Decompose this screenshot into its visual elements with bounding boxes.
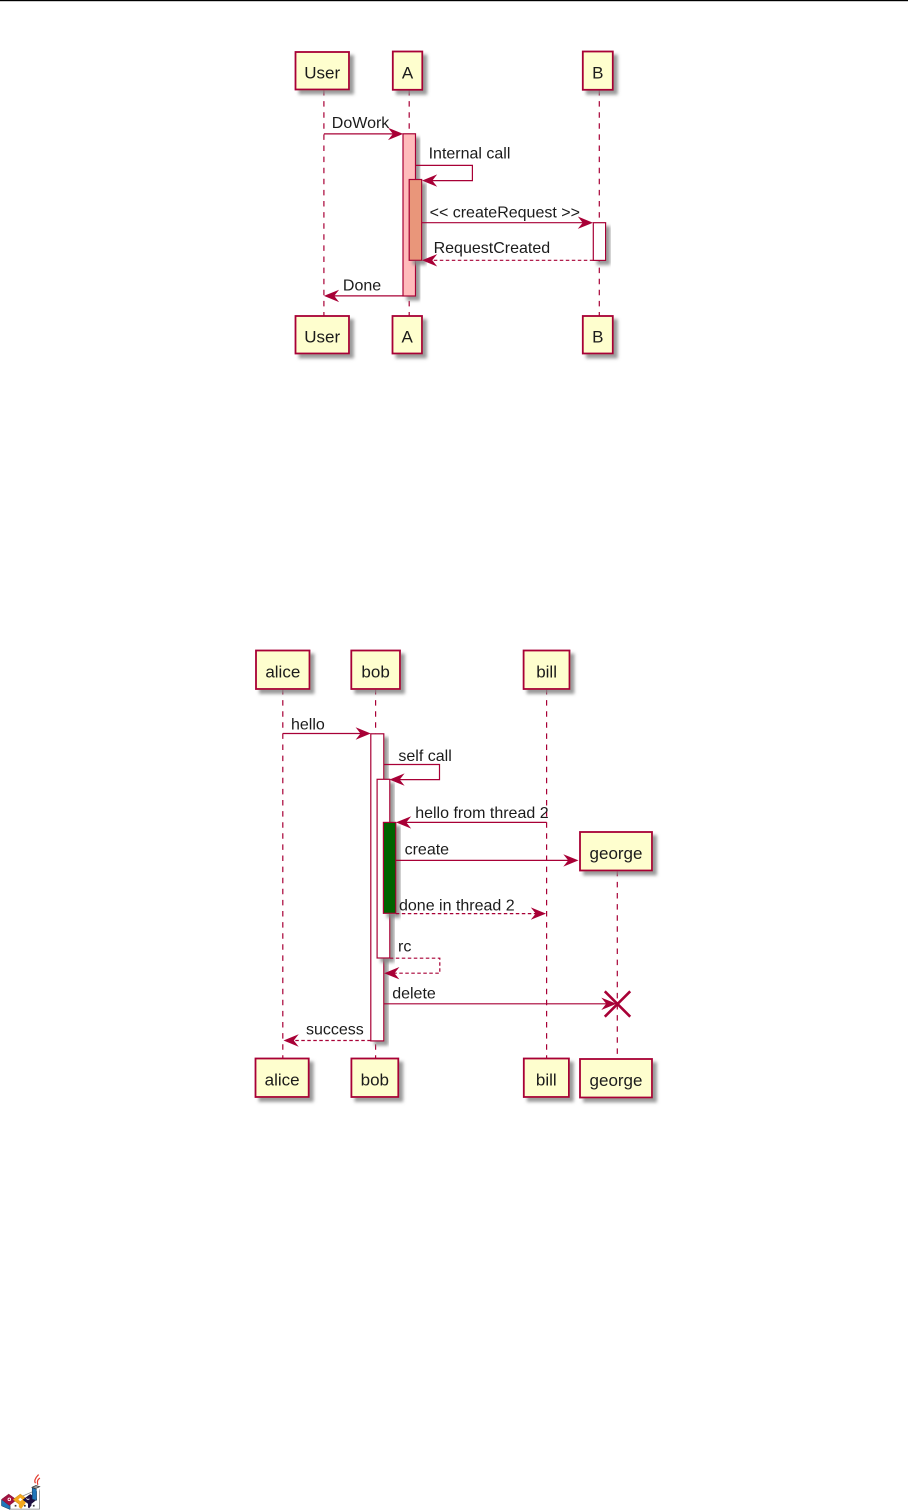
activation B: [593, 223, 605, 261]
svg-text:done in thread 2: done in thread 2: [399, 898, 515, 915]
svg-text:Done: Done: [343, 278, 381, 295]
svg-text:bob: bob: [361, 663, 389, 682]
participant bill (top): [524, 651, 570, 690]
message hello arrow: [283, 727, 371, 739]
svg-text:bill: bill: [536, 663, 557, 682]
svg-text:hello from thread 2: hello from thread 2: [415, 805, 549, 822]
participant george (created): [580, 832, 652, 871]
svg-text:User: User: [304, 63, 340, 82]
svg-text:RequestCreated: RequestCreated: [434, 240, 551, 257]
destroy X george: [605, 991, 630, 1016]
activation A darksalmon: [409, 180, 422, 261]
svg-text:rc: rc: [398, 938, 411, 955]
participant george (bottom): [580, 1059, 652, 1098]
participant bob (bottom): [351, 1059, 398, 1098]
svg-text:george: george: [590, 844, 643, 863]
svg-text:bill: bill: [536, 1071, 557, 1090]
participant bob (top): [351, 651, 400, 690]
logo smoke: [35, 1475, 40, 1485]
participant bill (bottom): [524, 1059, 569, 1098]
top rule: [0, 0, 908, 1]
participant alice (top): [256, 651, 310, 690]
lifeline george: [616, 871, 618, 1059]
svg-text:delete: delete: [392, 986, 436, 1003]
lifeline bob: [375, 689, 377, 1059]
message hello from thread 2 arrow: [396, 816, 547, 828]
lifeline alice: [282, 689, 284, 1059]
svg-text:alice: alice: [265, 663, 300, 682]
self message self call: [384, 765, 440, 786]
svg-text:Internal call: Internal call: [429, 145, 511, 162]
activation bob 2: [377, 779, 390, 958]
participant B (top): [583, 52, 613, 90]
logo blue base left face: [2, 1500, 11, 1510]
svg-text:self call: self call: [398, 748, 451, 765]
message createRequest arrow: [422, 217, 593, 229]
activation A pink: [403, 134, 416, 296]
svg-text:B: B: [592, 328, 603, 347]
return done in thread 2 dashed arrow: [396, 907, 546, 919]
return success dashed arrow: [284, 1034, 371, 1046]
svg-text:User: User: [304, 328, 340, 347]
svg-text:<< createRequest >>: << createRequest >>: [430, 204, 580, 221]
participant A (bottom): [393, 316, 423, 354]
logo building white wall: [10, 1489, 39, 1509]
lifeline bill: [546, 689, 548, 1059]
participant B (bottom): [583, 316, 613, 354]
message delete arrow: [384, 998, 617, 1010]
message create arrow: [396, 854, 579, 866]
svg-text:DoWork: DoWork: [332, 115, 390, 132]
svg-text:A: A: [402, 63, 414, 82]
svg-text:hello: hello: [291, 716, 325, 733]
svg-text:george: george: [590, 1071, 643, 1090]
svg-text:A: A: [402, 328, 414, 347]
logo windows: [15, 1505, 35, 1507]
activation bob 3 darkgreen: [383, 822, 395, 913]
message Done arrow: [324, 290, 403, 302]
return rc dashed self arrow: [384, 958, 440, 979]
participant alice (bottom): [256, 1059, 309, 1098]
svg-text:success: success: [306, 1022, 364, 1039]
lifeline B: [598, 90, 600, 316]
participant A (top): [393, 52, 423, 90]
return RequestCreated dashed arrow: [422, 254, 593, 266]
self message Internal call: [416, 165, 473, 186]
lifeline A: [408, 90, 410, 316]
logo chimney: [32, 1486, 40, 1501]
lifeline User: [323, 90, 325, 316]
participant User (bottom): [296, 316, 350, 354]
svg-text:bob: bob: [361, 1071, 389, 1090]
svg-text:B: B: [592, 63, 603, 82]
logo crimson block: [2, 1494, 17, 1505]
activation bob 1: [371, 734, 384, 1041]
message DoWork arrow: [324, 128, 403, 140]
svg-text:alice: alice: [265, 1071, 300, 1090]
logo yellow block: [13, 1494, 28, 1509]
svg-text:create: create: [405, 842, 450, 859]
logo dark block: [23, 1494, 37, 1508]
participant User (top): [296, 52, 350, 90]
